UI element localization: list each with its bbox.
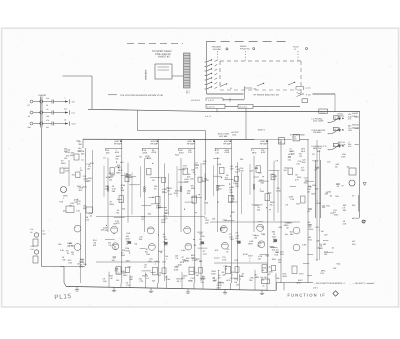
svg-text:250: 250 (79, 143, 82, 146)
svg-text:MFD: MFD (301, 150, 306, 153)
svg-text:C5: C5 (230, 87, 232, 90)
svg-text:.1: .1 (64, 97, 66, 100)
svg-text:6.8K: 6.8K (302, 244, 307, 247)
svg-text:1 RC: 1 RC (253, 88, 258, 91)
svg-text:250V: 250V (334, 213, 339, 216)
svg-text:.01: .01 (273, 233, 276, 236)
svg-text:P 150: P 150 (306, 93, 311, 96)
svg-text:R18: R18 (68, 261, 71, 264)
svg-text:6.8K: 6.8K (261, 151, 266, 154)
svg-text:R24: R24 (335, 195, 338, 198)
svg-text:680: 680 (272, 230, 275, 233)
svg-text:250V: 250V (216, 287, 221, 290)
svg-text:250V: 250V (77, 185, 82, 188)
svg-text:1M: 1M (347, 166, 350, 169)
svg-text:C22: C22 (140, 280, 143, 283)
svg-text:6.8K: 6.8K (341, 156, 346, 159)
svg-text:1M: 1M (80, 264, 83, 267)
svg-text:RF AMP: RF AMP (187, 142, 195, 145)
svg-text:THE VOLTAGE READINGS SHOWN VTV: THE VOLTAGE READINGS SHOWN VTVM (120, 94, 163, 97)
svg-text:.25: .25 (67, 252, 70, 255)
svg-text:.05: .05 (110, 277, 113, 280)
svg-text:R24: R24 (103, 280, 106, 283)
svg-text:— ADJUST 2 ——: — ADJUST 2 —— (353, 282, 372, 285)
svg-text:.01: .01 (146, 277, 149, 280)
svg-text:W2: W2 (158, 274, 161, 277)
svg-text:478 N: 478 N (313, 286, 318, 289)
svg-text:SW 450V: SW 450V (313, 131, 322, 134)
svg-text:120: 120 (258, 257, 261, 260)
svg-text:MFD: MFD (248, 243, 253, 246)
svg-text:5%: 5% (64, 157, 67, 160)
svg-text:W2: W2 (46, 126, 49, 129)
svg-text:250V: 250V (123, 274, 128, 277)
svg-text:470K: 470K (222, 259, 227, 262)
svg-text:6.8K: 6.8K (115, 151, 120, 154)
svg-text:MFD: MFD (319, 247, 324, 250)
svg-text:.01: .01 (163, 233, 166, 236)
svg-text:C14: C14 (163, 236, 166, 239)
svg-text:.002: .002 (76, 140, 80, 143)
svg-text:.002: .002 (348, 129, 352, 132)
svg-text:C 2L 75: C 2L 75 (208, 99, 214, 102)
svg-text:RF AMP: RF AMP (224, 142, 232, 145)
svg-text:MFD: MFD (161, 221, 166, 224)
svg-text:.05: .05 (71, 253, 74, 256)
svg-text:470K: 470K (65, 151, 70, 154)
svg-text:C14: C14 (64, 108, 67, 111)
svg-text:5%: 5% (113, 223, 116, 226)
svg-text:5%: 5% (72, 174, 75, 177)
svg-text:.01: .01 (289, 147, 292, 150)
svg-text:MFD: MFD (270, 246, 275, 249)
svg-text:R7: R7 (28, 104, 30, 107)
svg-text:C22: C22 (234, 259, 237, 262)
svg-text:.25: .25 (334, 128, 336, 131)
svg-text:C22: C22 (236, 234, 239, 237)
svg-text:RF 2: RF 2 (186, 92, 190, 95)
svg-text:AUDIO: AUDIO (352, 112, 359, 115)
svg-text:C22: C22 (72, 112, 75, 115)
svg-text:5%: 5% (270, 203, 273, 206)
svg-text:120: 120 (322, 205, 325, 208)
svg-text:5%: 5% (285, 233, 288, 236)
svg-text:1M: 1M (335, 166, 338, 169)
svg-text:MR MAY: MR MAY (352, 217, 360, 220)
svg-text:.05: .05 (28, 115, 31, 118)
svg-text:AN PAD A: AN PAD A (191, 99, 201, 102)
svg-text:MEG TAP: MEG TAP (313, 147, 322, 150)
svg-text:22K 2W: 22K 2W (260, 276, 267, 279)
svg-text:R18: R18 (127, 232, 130, 235)
svg-text:— NO FUNCTION IN MODEL 4: — NO FUNCTION IN MODEL 4 (314, 282, 346, 285)
svg-text:RF RANGE BAND SEL SW: RF RANGE BAND SEL SW (254, 93, 279, 96)
svg-text:SPEAKER: SPEAKER (145, 69, 148, 80)
svg-text:470K: 470K (243, 253, 248, 256)
svg-text:.01: .01 (261, 279, 264, 282)
svg-text:6SK7: 6SK7 (126, 260, 131, 263)
svg-text:1M: 1M (67, 245, 70, 248)
svg-text:COIL: COIL (232, 134, 236, 137)
svg-text:.05: .05 (199, 238, 202, 241)
svg-text:R18: R18 (312, 184, 315, 187)
svg-text:470K: 470K (174, 269, 179, 272)
svg-text:6.8K: 6.8K (121, 270, 126, 273)
svg-text:470K: 470K (225, 151, 230, 154)
svg-text:RF AMP: RF AMP (114, 142, 122, 145)
svg-text:6.8K: 6.8K (79, 261, 84, 264)
svg-text:.05: .05 (262, 285, 265, 288)
svg-text:C 2L 75: C 2L 75 (205, 115, 211, 118)
svg-text:6SK7: 6SK7 (126, 237, 131, 240)
svg-text:5%: 5% (278, 261, 281, 264)
svg-text:2.2K: 2.2K (84, 180, 89, 183)
svg-text:C22: C22 (324, 234, 327, 237)
svg-text:6V6GT 45: 6V6GT 45 (158, 56, 170, 59)
svg-text:50: 50 (46, 104, 48, 107)
svg-text:5%: 5% (255, 167, 258, 170)
svg-text:SW 2450: SW 2450 (213, 48, 222, 51)
svg-text:250V: 250V (282, 275, 287, 278)
svg-text:PHONO: PHONO (338, 114, 345, 117)
svg-text:6.8K: 6.8K (181, 249, 186, 252)
svg-text:470K: 470K (316, 202, 321, 205)
svg-text:RF AMP: RF AMP (151, 142, 159, 145)
svg-text:250V: 250V (260, 190, 265, 193)
svg-text:1M: 1M (109, 179, 112, 182)
svg-text:.05: .05 (329, 195, 332, 198)
svg-text:.002: .002 (42, 232, 46, 235)
svg-text:1M: 1M (307, 191, 310, 194)
svg-text:250V: 250V (272, 258, 277, 261)
svg-text:PHONO: PHONO (39, 94, 47, 97)
svg-text:680: 680 (323, 243, 326, 246)
svg-text:100: 100 (235, 237, 238, 240)
svg-text:MFD: MFD (116, 171, 121, 174)
svg-text:455: 455 (294, 138, 297, 141)
svg-text:FUNCTION IF: FUNCTION IF (288, 292, 327, 297)
svg-text:R7: R7 (268, 273, 270, 276)
svg-text:5%: 5% (199, 233, 202, 236)
svg-text:C9: C9 (64, 119, 66, 122)
svg-text:250V: 250V (109, 203, 114, 206)
svg-text:MFD: MFD (301, 147, 306, 150)
svg-text:470K: 470K (185, 260, 190, 263)
svg-text:250V: 250V (272, 236, 277, 239)
svg-text:OSC AL: OSC AL (320, 110, 326, 113)
svg-text:.05: .05 (334, 116, 336, 119)
svg-text:6.8K: 6.8K (217, 163, 222, 166)
svg-text:MFD: MFD (226, 279, 231, 282)
svg-text:1M: 1M (321, 230, 324, 233)
svg-text:6SK7: 6SK7 (72, 123, 76, 126)
svg-text:MFD: MFD (255, 276, 260, 279)
svg-text:R24: R24 (162, 260, 165, 263)
svg-text:.002: .002 (276, 277, 280, 280)
svg-text:PL15: PL15 (54, 293, 72, 301)
svg-text:R24: R24 (148, 260, 151, 263)
svg-text:R7: R7 (341, 185, 343, 188)
svg-text:.1: .1 (334, 144, 335, 147)
svg-text:PHONO: PHONO (352, 124, 359, 127)
svg-text:TONE: TONE (352, 115, 358, 118)
svg-text:250V: 250V (61, 162, 66, 165)
svg-text:MFD: MFD (192, 257, 197, 260)
svg-text:470K: 470K (143, 152, 148, 155)
svg-text:PHON SW: PHON SW (240, 48, 250, 51)
svg-text:120: 120 (116, 279, 119, 282)
svg-text:.1: .1 (232, 274, 234, 277)
svg-text:MFD: MFD (297, 282, 302, 285)
svg-text:5%: 5% (116, 157, 119, 160)
svg-text:C9: C9 (236, 232, 238, 235)
svg-text:470K: 470K (152, 151, 157, 154)
svg-text:MOTOR: MOTOR (352, 126, 360, 129)
svg-text:R7: R7 (352, 195, 354, 198)
svg-text:R24: R24 (352, 243, 355, 246)
svg-text:.05: .05 (315, 259, 318, 262)
svg-text:C AC 7R L: C AC 7R L (207, 105, 215, 108)
svg-text:250V: 250V (309, 228, 314, 231)
svg-text:5%: 5% (284, 169, 287, 172)
svg-text:W2: W2 (352, 240, 355, 243)
svg-text:AL 150: AL 150 (305, 87, 310, 90)
svg-text:6SA7 C: 6SA7 C (258, 129, 266, 132)
svg-text:.05: .05 (30, 231, 33, 234)
svg-text:.25: .25 (46, 108, 49, 111)
svg-text:1M: 1M (134, 243, 137, 246)
svg-text:250V: 250V (110, 174, 115, 177)
svg-text:OSC 455: OSC 455 (219, 135, 228, 138)
svg-text:6SK7: 6SK7 (311, 192, 316, 195)
svg-text:MC10 SW: MC10 SW (239, 105, 247, 108)
svg-text:470K: 470K (200, 235, 205, 238)
svg-text:6SK7: 6SK7 (211, 273, 217, 276)
svg-text:OSC LAMP: OSC LAMP (313, 120, 324, 123)
svg-text:1M: 1M (196, 274, 199, 277)
svg-text:IF TRANS 455K: IF TRANS 455K (290, 134, 305, 137)
svg-text:MFD: MFD (252, 152, 257, 155)
svg-text:5%: 5% (218, 277, 221, 280)
svg-text:455: 455 (279, 141, 282, 144)
svg-text:.05: .05 (42, 230, 45, 233)
svg-text:5%: 5% (69, 205, 72, 208)
svg-text:RF AMP: RF AMP (260, 142, 268, 145)
